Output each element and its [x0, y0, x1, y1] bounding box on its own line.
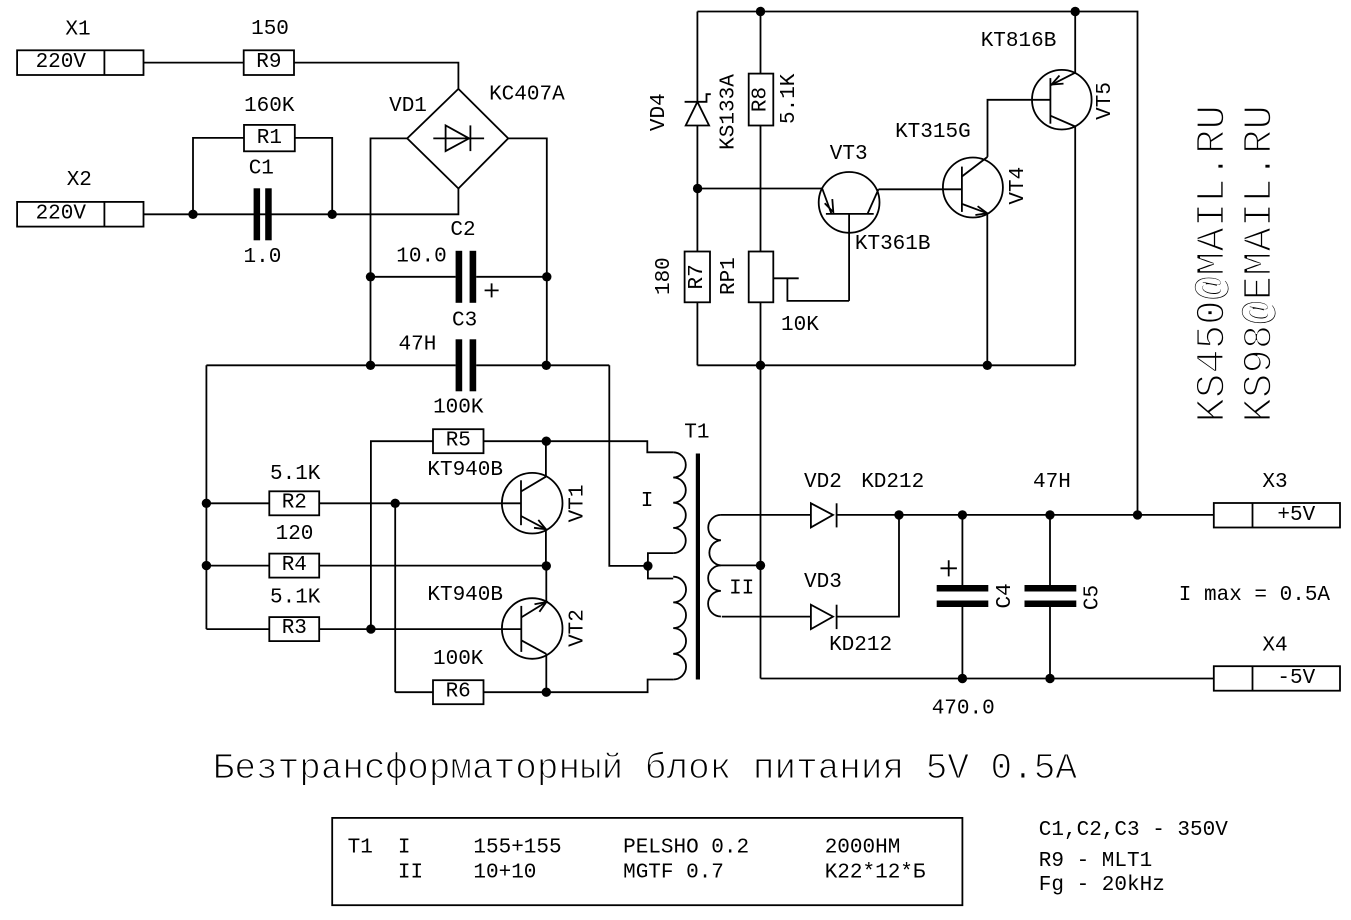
wire C2 row left [371, 276, 456, 278]
resistor R8 [749, 74, 774, 126]
wire R3 row to VT2 base [206, 628, 521, 630]
table box [332, 818, 962, 905]
svg-text:KC407A: KC407A [489, 83, 565, 106]
svg-text:R6: R6 [446, 680, 471, 703]
svg-text:KS133A: KS133A [718, 74, 741, 150]
svg-text:155+155: 155+155 [473, 837, 561, 860]
transistor VT5 [1032, 70, 1092, 130]
junction node secondary center tap [756, 561, 765, 570]
wire VT1 collector [545, 441, 547, 477]
junction node C2 right [542, 272, 551, 281]
svg-text:VT2: VT2 [566, 609, 589, 647]
svg-text:C1,C2,C3 - 350V: C1,C2,C3 - 350V [1039, 819, 1228, 842]
resistor R2 [269, 491, 319, 515]
svg-text:120: 120 [276, 523, 314, 546]
wire bridge right vertex to DC+ vertical [508, 138, 547, 365]
svg-text:KT816B: KT816B [981, 30, 1057, 53]
svg-text:PELSHO 0.2: PELSHO 0.2 [623, 837, 749, 860]
wire mid rail [697, 364, 1075, 366]
diode VD2 [811, 503, 837, 527]
svg-text:KD212: KD212 [829, 634, 892, 657]
svg-text:VT4: VT4 [1007, 167, 1030, 205]
wire R5 right to VT1 collector node [484, 440, 547, 442]
svg-text:VT5: VT5 [1094, 82, 1117, 120]
svg-text:VD1: VD1 [389, 95, 427, 118]
junction node VD2-VD3 cathodes [894, 510, 903, 519]
wire VT2 collector [545, 654, 547, 692]
diode VD3 [811, 605, 837, 629]
wire C5 bottom lead [1049, 607, 1051, 679]
transistor VT2 [502, 598, 563, 659]
resistor R1 [244, 125, 295, 151]
svg-text:5.1K: 5.1K [778, 73, 801, 124]
connector X4 [1214, 666, 1340, 691]
wire DC+ branch to primary center tap [609, 365, 648, 566]
svg-text:C2: C2 [450, 219, 475, 242]
svg-text:II: II [729, 578, 754, 601]
wire +5V rail [837, 514, 1214, 516]
wire RP1 bottom lead [760, 302, 762, 365]
wire RP1 wiper to VT3 base [773, 214, 849, 301]
wire R1 left leg [193, 138, 244, 214]
svg-text:R7: R7 [686, 264, 709, 289]
wire secondary top lead to VD2 [721, 514, 811, 516]
wire VT1 emitter [545, 529, 547, 566]
resistor R9 [244, 50, 294, 75]
wire VT2 emitter [545, 566, 547, 602]
capacitor C4 [937, 585, 989, 607]
svg-text:220V: 220V [36, 203, 87, 226]
capacitor C3 [456, 339, 477, 391]
junction node X2-C1 left [188, 210, 197, 219]
svg-text:KT940B: KT940B [427, 584, 503, 607]
wire zener node to VT3 emitter [698, 188, 822, 190]
wire R2 node down to R6 row [394, 503, 396, 692]
resistor R5 [433, 429, 484, 453]
resistor R3 [269, 617, 319, 641]
wire R5 node to primary top end [546, 441, 673, 452]
wire VT5 collector down to mid rail [1074, 127, 1076, 366]
svg-text:X4: X4 [1262, 634, 1287, 657]
svg-text:T1: T1 [684, 422, 709, 445]
svg-text:I: I [641, 490, 654, 513]
svg-text:R9: R9 [256, 51, 281, 74]
svg-text:X3: X3 [1262, 471, 1287, 494]
junction node R5-VT1 collector [542, 437, 551, 446]
svg-text:1.0: 1.0 [243, 246, 281, 269]
svg-text:Fg - 20kHz: Fg - 20kHz [1039, 874, 1165, 897]
junction node C1 right [328, 210, 337, 219]
resistor R4 [269, 554, 319, 578]
wire left bias bus vertical [205, 365, 207, 629]
svg-text:I: I [398, 837, 411, 860]
connector X3 [1214, 503, 1340, 528]
svg-text:R5: R5 [446, 429, 471, 452]
wire bottom rail [761, 678, 1214, 680]
junction node C5 top [1045, 510, 1054, 519]
junction node top rail R8 [756, 7, 765, 16]
wire VT5 emitter up to top rail [1074, 12, 1076, 73]
junction node C4 bottom [958, 674, 967, 683]
svg-text:KS450@MAIL.RU: KS450@MAIL.RU [1191, 105, 1237, 422]
transformer T1 primary winding I upper [673, 452, 686, 553]
resistor R7 [685, 252, 710, 303]
wire R8 top lead [760, 12, 762, 74]
svg-text:160K: 160K [244, 95, 295, 118]
wire C3 row right [476, 364, 609, 366]
svg-text:220V: 220V [36, 51, 87, 74]
junction node emitters-R4 [542, 561, 551, 570]
svg-text:C3: C3 [452, 310, 477, 333]
svg-text:5.1K: 5.1K [270, 586, 321, 609]
svg-text:KS98@EMAIL.RU: KS98@EMAIL.RU [1238, 105, 1284, 422]
svg-text:47H: 47H [398, 334, 436, 357]
wire R4 row to emitter node [206, 565, 546, 567]
wire center vertical rail to tap and bottom rail [760, 365, 762, 678]
svg-text:R1: R1 [257, 127, 282, 150]
transformer T1 core [696, 454, 700, 680]
svg-text:K22*12*Б: K22*12*Б [825, 862, 926, 885]
wire C4 bottom lead [961, 607, 963, 679]
wire C5 top lead [1049, 515, 1051, 585]
potentiometer RP1 [749, 252, 774, 303]
svg-text:+5V: +5V [1277, 504, 1315, 527]
svg-text:Безтрансформаторный блок питан: Безтрансформаторный блок питания 5V 0.5A [213, 748, 1078, 789]
wire R9 to bridge top vertex [294, 63, 458, 89]
svg-text:KT361B: KT361B [855, 233, 931, 256]
svg-text:C1: C1 [249, 158, 274, 181]
plus sign of C2 [485, 283, 499, 297]
wire VD2 cathode down to VD3 cathode [837, 515, 899, 617]
svg-text:II: II [398, 862, 423, 885]
svg-text:10K: 10K [781, 314, 819, 337]
svg-text:R8: R8 [750, 87, 773, 112]
svg-text:180: 180 [653, 257, 676, 295]
junction node R6-VT2 collector [542, 688, 551, 697]
junction node bus-R4 [202, 561, 211, 570]
svg-text:KT940B: KT940B [427, 459, 503, 482]
junction node right vertical +5V rail [1133, 510, 1142, 519]
svg-text:VT1: VT1 [566, 484, 589, 522]
wire bridge left vertex to DC- vertical [371, 138, 408, 365]
wire VT3 collector to VT4 base [879, 188, 962, 190]
transistor VT1 [502, 473, 563, 534]
transformer T1 secondary winding II upper [708, 515, 721, 566]
bridge rectifier VD1 diamond [407, 89, 508, 189]
junction node primary center tap [643, 561, 652, 570]
wire VT4 emitter down to mid rail [986, 213, 988, 365]
wire R5 left to R3 row [371, 441, 433, 629]
wire secondary center tap stub [721, 564, 761, 566]
svg-text:R2: R2 [282, 491, 307, 514]
svg-text:VD3: VD3 [804, 571, 842, 594]
wire C2 row right [476, 276, 547, 278]
transformer T1 secondary winding II lower [708, 565, 721, 616]
transistor VT4 [943, 157, 1003, 218]
zener diode VD4 [685, 94, 711, 125]
plus sign of C4 [941, 560, 957, 576]
svg-text:R4: R4 [282, 554, 307, 577]
svg-text:MGTF 0.7: MGTF 0.7 [623, 862, 724, 885]
svg-text:I max = 0.5A: I max = 0.5A [1179, 584, 1331, 607]
wire primary center tap [648, 553, 673, 578]
capacitor C2 [456, 251, 477, 303]
wire R2 row to VT1 base [206, 502, 521, 504]
svg-text:47H: 47H [1033, 471, 1071, 494]
connector X1 [17, 50, 143, 75]
junction node C2 left [366, 272, 375, 281]
wire VT4 collector to VT5 base [988, 100, 1051, 157]
svg-text:5.1K: 5.1K [270, 463, 321, 486]
wire C3 row left from bus [206, 364, 455, 366]
svg-text:VD4: VD4 [648, 93, 671, 131]
svg-text:100K: 100K [433, 648, 484, 671]
svg-text:VT3: VT3 [830, 143, 868, 166]
svg-text:-5V: -5V [1277, 667, 1315, 690]
svg-text:X1: X1 [65, 19, 90, 42]
junction node zener-R7-VT3 [693, 184, 702, 193]
capacitor C5 [1025, 585, 1077, 607]
svg-text:150: 150 [251, 18, 289, 41]
junction node mid rail VT4 emitter [983, 361, 992, 370]
svg-text:RP1: RP1 [718, 257, 741, 295]
wire top rail [697, 12, 1137, 515]
wire secondary bottom lead to VD3 anode [722, 616, 811, 618]
wire R7 top lead [696, 189, 698, 252]
svg-text:KT315G: KT315G [895, 121, 971, 144]
wire C4 top lead [961, 515, 963, 585]
junction node C5 bottom [1045, 674, 1054, 683]
junction node C3 left [366, 361, 375, 370]
svg-text:10.0: 10.0 [396, 246, 446, 269]
connector X2 [17, 202, 143, 227]
svg-text:X2: X2 [67, 169, 92, 192]
wire R7 bottom to mid rail [696, 302, 698, 365]
svg-text:C4: C4 [994, 583, 1017, 608]
svg-text:10+10: 10+10 [473, 862, 536, 885]
junction node R2-R6 vertical [391, 499, 400, 508]
capacitor C1 [254, 188, 272, 240]
wire X2 row to bridge bottom vertex [144, 189, 459, 215]
svg-text:VD2: VD2 [804, 471, 842, 494]
junction node bus-R2 [202, 499, 211, 508]
transformer T1 primary winding I lower [673, 577, 686, 680]
svg-text:KD212: KD212 [861, 471, 924, 494]
svg-text:C5: C5 [1082, 585, 1105, 610]
svg-text:470.0: 470.0 [932, 697, 995, 720]
bridge rectifier VD1 inner diode [433, 125, 484, 151]
svg-text:R9 - MLT1: R9 - MLT1 [1039, 850, 1152, 873]
resistor R6 [433, 680, 484, 704]
wire R8 bottom to RP1 top [760, 126, 762, 252]
wire X1 to R9 [144, 62, 244, 64]
svg-text:R3: R3 [282, 617, 307, 640]
wire R6 row to primary bottom end [395, 680, 673, 693]
junction node R3-R5 vertical [366, 624, 375, 633]
junction node C4 top [958, 510, 967, 519]
svg-text:2000HM: 2000HM [825, 837, 901, 860]
junction node top rail VT5 emitter [1071, 7, 1080, 16]
junction node mid rail RP1-center vertical [756, 361, 765, 370]
svg-text:T1: T1 [348, 837, 373, 860]
wire VD4 zener chain [696, 12, 698, 189]
junction node C3 right [542, 361, 551, 370]
transistor VT3 [819, 172, 880, 233]
svg-text:100K: 100K [433, 397, 484, 420]
wire R1 right leg [295, 138, 332, 214]
